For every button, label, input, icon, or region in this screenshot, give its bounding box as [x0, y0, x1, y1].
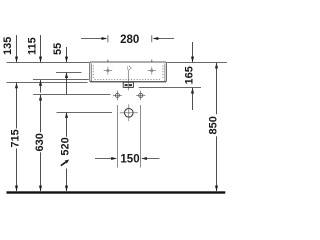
dim line 630 upper arrow at supply-level [39, 95, 42, 133]
supply connection left [113, 91, 122, 101]
faucet extension tick right upper [151, 35, 153, 42]
supply-level reference line [33, 94, 111, 96]
drain outlet circle [120, 104, 138, 121]
dim 280 left arrow [81, 37, 107, 40]
dim 150 right arrow [141, 157, 159, 160]
dim line 135 [15, 35, 18, 62]
svg-text:280: 280 [120, 34, 139, 46]
dim line 850 upper arrow [215, 63, 218, 115]
svg-text:520: 520 [60, 137, 72, 155]
dim line 520 lower arrow [65, 169, 68, 192]
150 extension line left [117, 105, 119, 168]
svg-text:115: 115 [27, 37, 39, 55]
150 extension line right [140, 105, 142, 168]
svg-text:150: 150 [120, 154, 139, 166]
svg-text:165: 165 [184, 66, 196, 84]
basin inner rim line right [164, 64, 166, 82]
drain centerline [127, 70, 129, 91]
faucet hole cross right [148, 67, 157, 75]
svg-text:135: 135 [2, 37, 14, 55]
basin outer body [90, 62, 167, 82]
faucet hole cross left [104, 67, 113, 75]
basin bowl dashed wall right [162, 66, 164, 80]
dim line 115 [39, 35, 42, 62]
faucet extension tick right lower [151, 60, 153, 62]
rim reference line right [167, 62, 227, 64]
55-level reference line [56, 72, 82, 74]
dim line 520 arrow at 55-level [65, 72, 68, 94]
basin bowl dashed bottom [95, 79, 162, 81]
basin bowl dashed wall left [92, 66, 94, 80]
floor line [7, 191, 226, 193]
drain housing box [123, 82, 133, 87]
dim 150 left arrow [95, 157, 117, 160]
dim line 630 lower arrow [39, 152, 42, 191]
dim line 630 mid arrow at 115-level [39, 80, 42, 93]
dim line 715 lower arrow [15, 149, 18, 192]
svg-text:715: 715 [9, 129, 21, 147]
520-level reference line [57, 112, 113, 114]
adjustable height arrow symbol [61, 160, 69, 166]
supply connection right [136, 91, 145, 101]
svg-text:630: 630 [34, 133, 46, 151]
115-level reference line [33, 79, 89, 81]
dim line 850 lower arrow [215, 136, 218, 191]
165-level reference line [139, 87, 201, 89]
faucet extension tick left upper [107, 35, 109, 42]
dim line 715 upper arrow [15, 83, 18, 129]
dim line 520 upper arrow at 520-level [65, 112, 68, 137]
dim line 165 lower arrow [191, 88, 194, 110]
dim line 55 [65, 47, 68, 62]
faucet extension tick left lower [107, 60, 109, 62]
dim line 165 upper arrow [191, 42, 194, 62]
dim 280 right arrow [153, 37, 174, 40]
drain housing filling [125, 84, 132, 86]
basin inner rim line left [90, 64, 92, 82]
basin bottom edge emphasis [90, 81, 166, 83]
rim reference line left [7, 62, 90, 64]
svg-text:55: 55 [52, 43, 64, 55]
svg-text:850: 850 [208, 116, 220, 134]
135-level reference line [7, 82, 88, 84]
overflow dashed circle [127, 66, 131, 70]
